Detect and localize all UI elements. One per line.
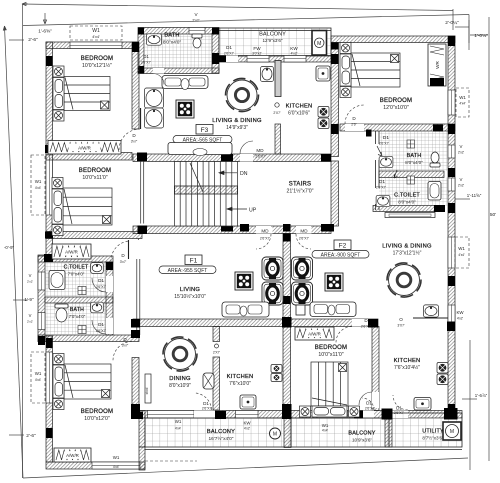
- wall ctoilet-left east: [106, 262, 113, 335]
- wall spine V2: [283, 234, 291, 320]
- column C26: [282, 317, 292, 328]
- column C30: [131, 330, 140, 338]
- svg-text:2'x2': 2'x2': [27, 320, 33, 324]
- wall stair east V5b: [331, 161, 339, 226]
- door gap V4: [372, 392, 379, 408]
- svg-text:2'6": 2'6": [351, 123, 357, 127]
- column C42: [212, 28, 219, 35]
- wall dining/kitchen V3 upper: [213, 327, 220, 342]
- svg-text:2'6"X7': 2'6"X7': [361, 325, 372, 329]
- toilet WC wc bath L: [55, 304, 68, 322]
- column C43: [138, 28, 144, 35]
- wall ctoilet/bath-left mid: [45, 297, 113, 303]
- F2 sink counter: [310, 302, 356, 317]
- wall bedroom2 south: [46, 232, 142, 239]
- wardrobe AWR bedroom1: [48, 141, 121, 155]
- svg-text:2'6"X7': 2'6"X7': [96, 285, 106, 289]
- svg-text:D1: D1: [143, 54, 149, 59]
- svg-text:D1: D1: [366, 401, 372, 406]
- svg-text:AREA:-900 SQFT: AREA:-900 SQFT: [321, 253, 361, 259]
- svg-text:M: M: [450, 429, 454, 435]
- svg-text:LIVING & DINING: LIVING & DINING: [382, 244, 432, 250]
- wall bedroomTR south: [340, 124, 455, 131]
- toilet WC wc bath F3: [192, 34, 202, 48]
- window W1 right-mid: [448, 237, 455, 268]
- wash basin basin ctoilet R: [376, 195, 390, 206]
- shower ctoilet R: [407, 176, 415, 184]
- passage door leaf: [128, 240, 130, 259]
- svg-text:UP: UP: [249, 208, 257, 214]
- wall balcony left end: [139, 411, 145, 448]
- svg-text:3'X7': 3'X7': [397, 324, 405, 328]
- opening O kitchen F3: [275, 103, 279, 107]
- window W1 bottom-left: [92, 462, 140, 469]
- wall dining/kitchen V3 lower: [213, 357, 220, 410]
- wash unit spine R2: [292, 282, 313, 305]
- MD door gap top: [240, 154, 253, 162]
- wardrobe AWR bottom-left: [54, 448, 91, 462]
- svg-text:W1: W1: [175, 419, 182, 424]
- svg-text:C.TOILET: C.TOILET: [394, 193, 420, 199]
- window W1 left-up: [46, 155, 53, 215]
- column bath F3 SW col: [138, 66, 144, 74]
- wall bath F3 north: [138, 28, 219, 35]
- washing machine WM utility: [443, 422, 461, 440]
- wall left exterior lower: [46, 336, 53, 462]
- column C33: [282, 404, 292, 419]
- svg-text:6'0"x10'6": 6'0"x10'6": [288, 111, 310, 117]
- svg-text:4'x4': 4'x4': [113, 465, 120, 469]
- door arc F2 kitchen door: [393, 395, 408, 410]
- window V left 2: [38, 313, 45, 330]
- svg-text:10'0"x11'0": 10'0"x11'0": [318, 352, 343, 358]
- column C40: [434, 205, 445, 212]
- svg-text:BATH: BATH: [70, 307, 84, 313]
- shower bath R: [407, 140, 415, 148]
- column C46: [433, 125, 443, 132]
- column C17: [240, 224, 249, 232]
- door arc F2 bedroom door: [336, 327, 352, 343]
- column C37: [131, 404, 140, 412]
- svg-text:STAIRS: STAIRS: [289, 182, 311, 188]
- column C25: [131, 319, 140, 328]
- tiled floor ctoiletR floor: [379, 178, 448, 206]
- wall F2 bed/kitchen V4: [372, 327, 379, 411]
- column C28: [447, 322, 455, 332]
- tiled floor bath-left floor: [45, 303, 106, 335]
- svg-text:2'6"X7': 2'6"X7': [379, 142, 389, 146]
- svg-text:DINING: DINING: [169, 376, 191, 382]
- bed bedroom F3-1 bed: [53, 66, 110, 121]
- door gap bedroomTR: [345, 124, 364, 131]
- wash basin basin bath R: [379, 156, 393, 167]
- svg-text:4'x4': 4'x4': [459, 102, 466, 106]
- window KW right: [448, 305, 455, 330]
- window V vent bath F3: [189, 28, 205, 35]
- balcony grid floor balcony F2: [291, 418, 389, 447]
- wash basin V1 basin 1: [145, 88, 164, 108]
- svg-text:2'6"X7': 2'6"X7': [394, 411, 404, 415]
- wall utility divider: [385, 418, 392, 448]
- dining table dining F2: [387, 263, 421, 297]
- svg-text:MD: MD: [261, 229, 269, 234]
- wall top-right exterior: [331, 36, 455, 43]
- kitchen F3 lower wall stub: [275, 124, 281, 154]
- wall right exterior: [448, 36, 455, 413]
- svg-text:4'x4': 4'x4': [458, 253, 465, 257]
- svg-text:12'9"x3'6": 12'9"x3'6": [262, 38, 282, 43]
- wardrobe WR top-right: [428, 44, 446, 86]
- svg-text:C.TOILET: C.TOILET: [64, 265, 89, 271]
- svg-text:2'x2': 2'x2': [458, 184, 465, 188]
- balcony grid floor balcony F3: [219, 28, 331, 56]
- svg-text:D1: D1: [98, 278, 104, 283]
- svg-text:2'6"X7': 2'6"X7': [299, 237, 309, 241]
- column C13: [221, 154, 233, 162]
- MD2 white bg: [297, 227, 312, 234]
- svg-text:1'-6⅝": 1'-6⅝": [38, 29, 52, 35]
- balcony top inner line: [219, 30, 331, 32]
- bathR door arrow: [377, 146, 382, 156]
- toilet WC wc bath R: [430, 152, 440, 167]
- column C27: [368, 319, 378, 328]
- svg-text:D1: D1: [203, 401, 209, 406]
- svg-text:BEDROOM: BEDROOM: [81, 56, 113, 62]
- svg-text:KW: KW: [290, 46, 298, 51]
- door arc bedroom BL door: [113, 342, 132, 361]
- svg-text:D1: D1: [396, 406, 402, 411]
- column C4: [219, 56, 226, 63]
- balcony grid floor balcony F1: [145, 418, 291, 447]
- column C24: [283, 296, 291, 304]
- svg-text:1'-0⅛": 1'-0⅛": [474, 33, 488, 39]
- F3 wash counter below bath: [162, 76, 208, 90]
- flat tag F1: [185, 255, 202, 265]
- svg-text:4'x4': 4'x4': [175, 427, 182, 431]
- door arc F2 bed balcony door: [362, 398, 374, 410]
- dining table dining F3: [225, 78, 258, 111]
- svg-text:V: V: [29, 313, 32, 318]
- svg-text:10'0"x11'0": 10'0"x11'0": [82, 175, 107, 181]
- F2 counter with basin: [413, 317, 448, 319]
- column C22: [448, 276, 455, 286]
- column C15: [138, 226, 148, 235]
- svg-text:2'-0¼": 2'-0¼": [445, 20, 459, 26]
- kitchen F3 counter stub: [275, 61, 281, 97]
- svg-text:2'6"X7': 2'6"X7': [260, 237, 270, 241]
- bathtub tub ctoilet L: [49, 271, 65, 290]
- column C11: [448, 203, 455, 213]
- svg-text:LIVING & DINING: LIVING & DINING: [212, 118, 262, 124]
- stove stove kitchen F1: [271, 365, 282, 382]
- F2 side square: [296, 305, 305, 315]
- wall bedroom1 south: [46, 153, 132, 161]
- svg-text:3'x7': 3'x7': [131, 140, 138, 144]
- svg-text:2'x2': 2'x2': [458, 151, 465, 155]
- wall bath F3 west: [138, 34, 144, 73]
- svg-text:10'0"x12'1½": 10'0"x12'1½": [82, 62, 112, 69]
- column C23: [283, 234, 291, 242]
- wash basin basin bath F3: [147, 34, 162, 45]
- svg-text:BALCONY: BALCONY: [348, 431, 375, 437]
- svg-text:F2: F2: [339, 243, 347, 250]
- wall bottom-left bedroom south: [46, 462, 145, 469]
- column C34: [354, 411, 363, 419]
- wash unit spine L1: [262, 257, 283, 280]
- svg-text:17'3"x12'1½": 17'3"x12'1½": [393, 250, 422, 257]
- svg-text:2'-6": 2'-6": [28, 37, 38, 43]
- door arc MD bottom 2 door: [296, 234, 311, 249]
- window KW bottom F1: [236, 411, 259, 419]
- door arc bedroom F3-1 door: [119, 129, 140, 150]
- wash basin F2 counter basin: [424, 305, 439, 317]
- svg-text:4'x4': 4'x4': [92, 35, 100, 39]
- door gap bath L: [106, 318, 113, 334]
- svg-text:4'x2': 4'x2': [457, 317, 464, 321]
- column C10: [448, 168, 455, 177]
- door arc ctoilet L door: [92, 278, 106, 292]
- wall top-left exterior: [46, 42, 138, 49]
- svg-text:KITCHEN: KITCHEN: [227, 374, 254, 380]
- svg-text:2'6"X7': 2'6"X7': [255, 155, 265, 159]
- wall H3 left: [133, 319, 291, 327]
- wall bottom H4: [133, 411, 462, 419]
- wall H3 right: [291, 319, 378, 327]
- balcony bottom inner line: [145, 449, 462, 451]
- svg-text:BEDROOM: BEDROOM: [315, 345, 347, 351]
- svg-text:V: V: [460, 177, 463, 182]
- wardrobe AWR mid-left: [52, 244, 91, 259]
- svg-text:BALCONY: BALCONY: [207, 429, 235, 435]
- svg-text:BATH: BATH: [164, 33, 179, 39]
- passage east thin wall: [137, 239, 140, 336]
- svg-text:BATH: BATH: [407, 153, 422, 159]
- svg-text:LIVING: LIVING: [180, 287, 200, 293]
- svg-text:D1: D1: [379, 179, 385, 185]
- svg-text:F1: F1: [190, 258, 198, 265]
- svg-text:2'X7': 2'X7': [213, 351, 221, 355]
- tiled floor bath F3 floor: [144, 34, 212, 68]
- svg-text:2'6"X7': 2'6"X7': [202, 407, 212, 411]
- stool ledge F1: [145, 374, 151, 403]
- decorative tile deco F1: [235, 272, 253, 290]
- wardrobe AWR F2: [295, 327, 334, 340]
- svg-text:16'7½"x4'0": 16'7½"x4'0": [209, 435, 234, 442]
- svg-text:M: M: [273, 432, 277, 438]
- wall kitchenF3/bedroomTR V5: [331, 43, 339, 157]
- window W1 bottom F2: [317, 411, 348, 419]
- door arc MD bottom 1 door: [256, 234, 271, 249]
- svg-text:W1: W1: [92, 28, 100, 34]
- column C3: [212, 53, 219, 64]
- window dashed box W1 right-mid outside: [455, 237, 469, 268]
- column C36: [46, 428, 53, 438]
- MD1 white bg: [258, 227, 273, 234]
- svg-text:2'6"X7': 2'6"X7': [376, 186, 386, 190]
- shower ctoilet L: [78, 287, 86, 295]
- svg-text:4'x4': 4'x4': [322, 429, 329, 433]
- column C29: [46, 338, 53, 348]
- wall balcony divider: [284, 418, 291, 448]
- column C39: [366, 130, 372, 137]
- bed bedroom BL bed: [53, 354, 111, 410]
- decorative tile deco F2: [325, 273, 343, 291]
- column C41: [45, 232, 53, 239]
- opening O F1: [215, 344, 219, 348]
- column C21: [106, 262, 113, 270]
- svg-text:O: O: [399, 317, 403, 322]
- bed bedroom TR bed: [340, 43, 400, 98]
- TV unit F3: [168, 143, 232, 156]
- column C2: [132, 42, 139, 52]
- door gap ctoilet L: [106, 276, 113, 292]
- svg-text:1'-6⅞": 1'-6⅞": [475, 393, 488, 398]
- kitchen sink sink kitchen F3: [316, 66, 330, 81]
- svg-text:W1: W1: [35, 179, 42, 184]
- decorative tile deco F3: [176, 100, 194, 118]
- flat tag F3: [196, 125, 213, 135]
- svg-text:2'6"X7': 2'6"X7': [224, 52, 234, 56]
- svg-text:KITCHEN: KITCHEN: [286, 104, 313, 110]
- svg-text:8'0"x4'0": 8'0"x4'0": [398, 200, 416, 205]
- svg-text:M: M: [317, 41, 321, 47]
- column C47: [38, 336, 45, 345]
- column C18: [283, 224, 291, 232]
- window KW window: [284, 56, 306, 63]
- svg-text:stool: stool: [145, 387, 149, 394]
- window dashed box W1 top-left outside: [70, 26, 122, 40]
- column C35: [444, 408, 458, 420]
- svg-text:A/W/R: A/W/R: [78, 145, 91, 150]
- svg-text:MD: MD: [300, 229, 308, 234]
- window W1 top-left: [70, 42, 122, 49]
- door gap D1 F1: [194, 411, 215, 419]
- shower bath L: [78, 326, 86, 334]
- dashed setback hint: [145, 460, 197, 462]
- svg-text:D1: D1: [383, 135, 389, 141]
- svg-text:4'x2': 4'x2': [244, 427, 251, 431]
- svg-text:8'0"x4'0": 8'0"x4'0": [405, 160, 423, 165]
- column C12: [137, 153, 147, 162]
- svg-text:-0'-9": -0'-9": [4, 245, 14, 250]
- svg-text:2'x2': 2'x2': [27, 280, 33, 284]
- svg-text:FW: FW: [253, 46, 261, 51]
- svg-text:4'x2': 4'x2': [291, 52, 298, 56]
- door arc F1 balcony door: [194, 393, 212, 410]
- column C19: [321, 224, 334, 232]
- window V right 2: [448, 178, 455, 191]
- svg-text:1'-9": 1'-9": [24, 297, 34, 302]
- window dashed box W1 left-low outside: [31, 352, 45, 403]
- bathR west thin wall: [376, 131, 380, 210]
- svg-text:V: V: [460, 144, 463, 149]
- svg-text:BALCONY: BALCONY: [259, 32, 286, 38]
- svg-text:BEDROOM: BEDROOM: [81, 409, 113, 415]
- svg-text:3'x7': 3'x7': [120, 260, 127, 264]
- bathtub tub ctoilet R: [428, 182, 441, 201]
- wall stair north H1: [133, 154, 331, 162]
- svg-text:8'7½"x3'6": 8'7½"x3'6": [422, 435, 444, 441]
- svg-text:3'0"x2': 3'0"x2': [252, 52, 262, 56]
- column C7: [331, 43, 339, 50]
- wall bath F3 east: [212, 34, 219, 73]
- window V right 1: [448, 145, 455, 158]
- wash basin basin ctoilet L: [91, 263, 104, 274]
- wall spine V2 lower: [283, 327, 291, 411]
- window dashed box W1 left-up outside: [31, 155, 45, 215]
- svg-text:A/W/R: A/W/R: [65, 250, 78, 255]
- door arc bedroom TR door: [345, 105, 364, 124]
- stove stove kitchen F3: [318, 107, 329, 129]
- svg-text:WR: WR: [435, 60, 440, 68]
- fridge F1: [203, 373, 214, 389]
- wall below balcony F3: [219, 56, 331, 63]
- wash basin V1 basin 2: [145, 108, 164, 128]
- door gap D1 F2 kitchen: [393, 411, 409, 419]
- window dashed box W1 right-top outside: [456, 88, 469, 117]
- svg-text:KITCHEN: KITCHEN: [394, 358, 421, 364]
- column C8: [448, 124, 455, 134]
- wall balcony left step: [139, 447, 145, 470]
- svg-text:50': 50': [490, 212, 496, 218]
- wall bedrooms-left east V1 upper: [132, 42, 139, 129]
- wash basin basin kitchen F3: [261, 67, 274, 82]
- bedroom1 door leaf: [140, 108, 142, 129]
- svg-text:KW: KW: [456, 310, 464, 315]
- svg-text:UTILITY: UTILITY: [422, 429, 444, 435]
- svg-text:4'x4': 4'x4': [35, 378, 42, 382]
- ctoiletR door arrow: [394, 170, 398, 178]
- WM circle balcony F1: [270, 428, 281, 439]
- column C45: [45, 145, 53, 153]
- wall ctoilet-left west: [38, 255, 45, 342]
- window FW window: [247, 56, 269, 63]
- svg-text:W1: W1: [459, 95, 466, 100]
- window W1 right-top: [448, 90, 455, 115]
- svg-text:F3: F3: [201, 127, 209, 134]
- wall bath-left south: [38, 335, 139, 342]
- svg-text:V: V: [29, 273, 32, 278]
- svg-text:14'9"x9'3": 14'9"x9'3": [226, 125, 248, 131]
- svg-text:8'0"x4'0": 8'0"x4'0": [163, 40, 182, 46]
- svg-text:W1: W1: [113, 455, 120, 460]
- door arc V4 door: [359, 392, 372, 405]
- bed bedroom F2 bed: [300, 362, 360, 417]
- wall ctoilet-left north: [38, 256, 113, 262]
- wash unit spine L2: [262, 282, 283, 305]
- svg-text:A/W/R: A/W/R: [308, 332, 321, 337]
- bedroom2 east thin wall: [141, 161, 144, 224]
- bed bedroom L2 bed: [52, 178, 112, 236]
- svg-text:7'0"x4'0": 7'0"x4'0": [69, 314, 86, 319]
- door arc MD top door: [240, 141, 253, 154]
- svg-text:4'x4': 4'x4': [35, 186, 42, 190]
- tiled floor bathR floor: [379, 131, 448, 171]
- svg-text:MD: MD: [256, 148, 264, 153]
- svg-text:12'0"x10'0": 12'0"x10'0": [383, 105, 409, 111]
- svg-text:DN: DN: [240, 171, 248, 177]
- column C38: [382, 409, 393, 420]
- svg-text:AREA:-955 SQFT: AREA:-955 SQFT: [168, 268, 208, 274]
- door gap F2 living-bedroom: [352, 319, 369, 327]
- svg-text:W1: W1: [458, 246, 465, 251]
- door gap bath F3: [153, 68, 164, 74]
- svg-text:2'6"X7': 2'6"X7': [141, 61, 151, 65]
- door gap D1 balcony F3: [220, 56, 238, 63]
- svg-text:10'0"x12'0": 10'0"x12'0": [84, 416, 110, 422]
- svg-text:W1: W1: [35, 371, 42, 376]
- shelf below ctoiletR: [385, 213, 435, 218]
